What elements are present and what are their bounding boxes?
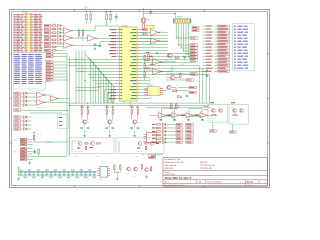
label IC designators — [31, 91, 36, 93]
diode D10 — [111, 162, 115, 172]
capacitor C18 — [93, 171, 97, 178]
wire — [208, 75, 210, 104]
resistor R33 — [176, 104, 181, 109]
net label LED4 — [186, 134, 193, 136]
net label OUT2 — [230, 131, 237, 133]
wire — [21, 116, 24, 118]
wire — [187, 24, 189, 58]
wire — [21, 109, 30, 112]
svg-text:10K: 10K — [175, 55, 177, 57]
wire — [140, 80, 150, 82]
wire — [97, 69, 99, 104]
wire — [92, 63, 94, 104]
wire bus entry — [85, 54, 91, 60]
resistor RN4 — [52, 36, 56, 37]
wire — [27, 104, 37, 106]
transistor Q11 — [170, 75, 178, 79]
op-amp U7D — [200, 111, 208, 121]
module box K1 — [208, 104, 228, 122]
svg-text:74HC14: 74HC14 — [74, 49, 79, 51]
wire — [68, 62, 116, 64]
label K2 12V — [231, 102, 235, 103]
wire bus entry — [106, 78, 112, 84]
resistor R26 — [152, 156, 156, 157]
wire — [162, 61, 176, 63]
junction — [81, 105, 82, 106]
net label AD5 — [203, 40, 230, 42]
wire — [106, 13, 108, 15]
net label AD6 — [203, 43, 230, 45]
wire — [140, 65, 200, 67]
wire — [144, 12, 176, 14]
label pin net — [111, 38, 116, 39]
svg-text:C2 104: C2 104 — [149, 97, 153, 99]
svg-text:R30 1K: R30 1K — [165, 60, 169, 62]
wire — [53, 64, 67, 66]
svg-text:Fixed 1 T.A. Print 27.1.0.-7: Fixed 1 T.A. Print 27.1.0.-7 — [165, 184, 185, 187]
svg-text:D10: D10 — [111, 162, 113, 164]
power VCC — [174, 13, 176, 16]
svg-text:U7D: U7D — [200, 111, 202, 113]
svg-text:9013: 9013 — [112, 122, 115, 124]
svg-text:12M: 12M — [147, 20, 150, 22]
wire — [93, 80, 117, 82]
diode D3 — [24, 124, 27, 127]
wire — [144, 61, 146, 64]
svg-text:For what:(bit) - Tick: For what:(bit) - Tick — [165, 158, 181, 161]
svg-text:Bill ada anual: (91) 245: Bill ada anual: (91) 245 — [165, 162, 184, 164]
diode D8 — [162, 137, 165, 140]
net label PC3 — [190, 53, 197, 55]
capacitor C6 — [41, 171, 45, 178]
svg-text:4K7: 4K7 — [161, 31, 163, 33]
wire bus entry — [101, 72, 107, 78]
net label KY1 — [14, 116, 21, 118]
resistor R19 — [157, 134, 161, 135]
net label AD3 — [203, 34, 230, 36]
wire — [99, 42, 101, 46]
svg-text:HC04: HC04 — [201, 118, 204, 120]
resistor R21 — [34, 135, 40, 139]
svg-text:10uF: 10uF — [159, 53, 162, 55]
svg-text:+5V: +5V — [142, 154, 145, 156]
wire — [21, 128, 24, 130]
capacitor C4 — [32, 171, 36, 178]
op-amp U2A — [37, 89, 46, 98]
label pin net — [109, 50, 116, 51]
svg-text:TTi17 [25, B5]: TTi17 [25, B5] — [200, 168, 212, 170]
svg-text:A4: A4 — [199, 181, 201, 184]
svg-text:9013 9013: 9013 9013 — [231, 118, 236, 120]
wire — [76, 71, 117, 73]
module box M1 — [58, 115, 69, 129]
net label AFD — [44, 28, 51, 30]
svg-text:U7B: U7B — [172, 111, 174, 113]
label stack — [146, 60, 149, 61]
resistor R14 — [173, 90, 177, 91]
label pin net — [109, 98, 116, 99]
svg-text:R3 R4: R3 R4 — [105, 12, 109, 14]
capacitor — [173, 118, 176, 121]
capacitor C5 — [37, 170, 41, 176]
wire — [204, 106, 209, 108]
wire — [53, 76, 67, 78]
net label OUT1 — [210, 130, 217, 132]
IC U1 AT89C52 — [116, 25, 140, 101]
junction — [106, 105, 107, 106]
resistor R25 — [150, 167, 154, 171]
resistor R12 — [144, 64, 146, 69]
wire — [155, 141, 158, 143]
wire bus — [70, 105, 210, 107]
svg-text:SCL: SCL — [157, 92, 160, 94]
label pin net — [110, 89, 116, 90]
junction — [112, 103, 113, 104]
wire — [90, 60, 92, 104]
wire — [167, 114, 172, 116]
ground — [206, 74, 209, 77]
svg-text:BTG, P52:: BTG, P52: — [165, 168, 174, 170]
wire — [76, 68, 117, 70]
wire — [33, 140, 35, 142]
wire — [166, 77, 170, 79]
diode D1 — [24, 116, 27, 119]
svg-text:1K: 1K — [152, 169, 154, 171]
label pin net — [112, 56, 117, 57]
resistor R29 — [177, 94, 182, 97]
diode DD1 — [58, 24, 61, 27]
resistor R21 — [157, 142, 161, 143]
wire — [108, 81, 110, 104]
transistor Q5 — [232, 107, 236, 112]
wire — [160, 40, 168, 42]
wire — [165, 123, 175, 125]
net label AN1 — [190, 73, 197, 75]
resistor R10 — [143, 33, 147, 34]
capacitor C22 — [33, 150, 36, 155]
wire — [140, 29, 146, 31]
transistor Q1 — [167, 53, 175, 58]
label pin net — [108, 44, 116, 45]
wire — [155, 138, 158, 140]
wire — [143, 29, 145, 31]
power VCC — [86, 11, 88, 14]
net label AD2 — [203, 31, 230, 33]
resistor R20 — [157, 138, 161, 139]
wire — [181, 47, 190, 49]
svg-text:VC: VC — [158, 88, 160, 90]
net label LED4A — [176, 134, 182, 136]
label stack — [150, 64, 153, 65]
svg-text:9013: 9013 — [137, 122, 140, 124]
capacitor C9 — [54, 170, 58, 176]
label K1 12V — [210, 102, 214, 103]
net label +5V — [142, 154, 164, 158]
capacitor C14 — [76, 171, 80, 178]
diode DD4 — [58, 35, 61, 38]
wire — [140, 47, 168, 49]
wire vertical bus — [66, 54, 68, 156]
wire — [140, 98, 150, 100]
resistor RN2 — [52, 28, 56, 29]
net label PC5 — [46, 76, 53, 78]
wire — [204, 109, 209, 111]
svg-text:9013: 9013 — [87, 122, 90, 124]
wire — [90, 77, 116, 79]
wire — [76, 90, 99, 92]
wire — [27, 92, 37, 94]
svg-text:U4B: U4B — [150, 45, 153, 47]
wire — [140, 41, 168, 43]
label pin net — [111, 95, 117, 96]
net label ACK — [44, 39, 51, 41]
wire — [27, 96, 37, 98]
wire — [188, 56, 189, 58]
svg-text:OUT2: OUT2 — [96, 156, 100, 158]
svg-text:HC04: HC04 — [159, 118, 162, 120]
capacitor C10 — [58, 171, 62, 178]
wire — [21, 120, 24, 122]
net label LED6A — [176, 141, 182, 143]
net label LED2A — [176, 127, 182, 129]
svg-text:GN: GN — [148, 94, 150, 96]
net label AD4 — [203, 37, 230, 39]
wire — [61, 25, 64, 27]
net label IR7 — [203, 64, 230, 66]
wire — [140, 74, 209, 76]
wire loop — [162, 109, 175, 117]
ground — [17, 177, 20, 180]
resistor R8b — [110, 14, 112, 20]
svg-text:JRC-21F: JRC-21F — [210, 120, 215, 122]
wire — [114, 171, 120, 173]
capacitor C13 — [98, 44, 102, 47]
label stack — [146, 68, 149, 69]
wire — [140, 32, 151, 34]
resistor R28 — [180, 74, 182, 79]
wire vertical — [78, 51, 80, 104]
net label AD1 — [203, 28, 230, 30]
net label PC0 — [46, 61, 53, 63]
module box RLY1 — [69, 138, 114, 154]
label pin net — [110, 29, 117, 30]
svg-text:9013 9013: 9013 9013 — [210, 118, 215, 120]
wire — [180, 114, 185, 116]
driver group T1 — [78, 106, 91, 134]
resistor R — [195, 115, 198, 116]
svg-text:m 1/1: m 1/1 — [248, 185, 252, 187]
net label RST — [14, 104, 21, 106]
capacitor C8 — [50, 171, 54, 178]
svg-text:Thim TOC bo: En=7: Thim TOC bo: En=7 — [165, 176, 192, 180]
net label PC2 — [46, 67, 53, 69]
svg-text:WP: WP — [158, 90, 160, 92]
wire — [86, 20, 88, 23]
junction — [90, 59, 91, 60]
svg-text:U7C: U7C — [186, 111, 188, 113]
wire — [53, 70, 67, 72]
svg-text:C14 104: C14 104 — [180, 64, 185, 66]
wire — [166, 73, 190, 75]
label pin net — [108, 92, 116, 93]
wire — [59, 98, 70, 100]
net label PC0H — [192, 26, 199, 28]
net label AN2 — [186, 79, 193, 81]
diode DIIRQ — [24, 100, 27, 103]
power VCC — [33, 132, 35, 135]
svg-text:LM358: LM358 — [99, 179, 103, 181]
wire — [61, 32, 64, 34]
wire — [51, 28, 53, 30]
svg-text:Sie #:: Sie #: — [165, 182, 170, 184]
diode D11 — [118, 164, 121, 173]
driver group T2 — [103, 106, 116, 134]
svg-text:swhe: d/ba ad:: swhe: d/ba ad: — [165, 165, 177, 167]
ground — [28, 161, 31, 164]
resistor R17 — [157, 127, 161, 128]
wire — [140, 92, 150, 94]
diode D6 — [162, 130, 165, 133]
net label SCL — [189, 91, 196, 93]
resistor RN5 — [52, 39, 56, 40]
net label PC6 — [190, 44, 197, 46]
label row — [152, 131, 155, 132]
wire — [140, 44, 168, 46]
wire — [72, 30, 95, 32]
net label PC1H — [192, 29, 199, 31]
connector J3 — [14, 138, 32, 145]
wire — [72, 37, 87, 39]
wire vertical — [75, 51, 77, 104]
junction — [108, 80, 109, 81]
wire — [109, 96, 111, 104]
net label PE — [44, 46, 51, 48]
wire — [140, 86, 150, 88]
resistor R6a — [78, 31, 79, 36]
op-amp U7C — [186, 111, 194, 121]
title block — [163, 157, 268, 187]
wire — [140, 32, 146, 34]
wire — [100, 72, 102, 104]
wire — [56, 46, 64, 48]
junction — [175, 37, 178, 40]
capacitor C8 — [115, 14, 118, 21]
wire — [140, 68, 203, 70]
net label KY4 — [14, 128, 21, 130]
wire — [94, 26, 96, 31]
net label SLIN — [44, 35, 51, 37]
label pin net — [110, 41, 116, 42]
junction — [69, 105, 70, 106]
wire — [123, 101, 125, 103]
net label IOR — [203, 49, 230, 51]
op-amp U4A — [150, 26, 160, 35]
wire — [103, 75, 105, 104]
wire — [98, 86, 117, 88]
wire bus entry — [98, 69, 104, 75]
resistor RN8 — [52, 50, 56, 51]
wire — [140, 56, 196, 58]
net label LED1A — [176, 123, 182, 125]
wire — [27, 128, 32, 130]
wire — [105, 89, 117, 91]
wire — [194, 114, 199, 116]
diode DD6 — [58, 42, 61, 45]
diode DD2 — [58, 28, 61, 31]
resistor R16 — [157, 124, 161, 125]
net label LED3A — [176, 130, 182, 132]
wire — [53, 67, 67, 69]
wire — [208, 114, 212, 116]
op-amp U6B — [152, 68, 162, 78]
wire — [110, 84, 112, 104]
power VCC — [18, 167, 20, 170]
net label PC4 — [190, 50, 197, 52]
diode DIRST — [24, 104, 27, 107]
wire — [129, 101, 131, 106]
net label PC7 — [190, 37, 197, 39]
wire — [150, 114, 158, 116]
wire — [165, 138, 175, 140]
wire — [61, 42, 64, 44]
junction — [98, 68, 99, 69]
wire loop — [189, 109, 202, 117]
IC U8 — [97, 167, 110, 182]
wire — [155, 123, 158, 125]
wire — [166, 79, 186, 81]
svg-text:Date: 27/5.185.47: Date: 27/5.185.47 — [208, 181, 222, 184]
wire — [30, 110, 70, 112]
label row — [152, 124, 155, 125]
wire — [51, 32, 53, 34]
capacitor C9 — [149, 9, 152, 15]
svg-text:C6 104: C6 104 — [38, 134, 42, 136]
net label RD0 — [46, 52, 53, 54]
resistor RN1 — [52, 25, 56, 26]
power VCC — [90, 11, 92, 14]
wire — [155, 134, 158, 136]
net label PC1 — [190, 59, 197, 61]
junction — [180, 47, 183, 50]
resistor RN7 — [52, 46, 56, 47]
wire vertical — [84, 51, 86, 104]
capacitor C15 — [80, 170, 84, 176]
wire — [140, 83, 150, 85]
net table NT2 — [233, 24, 255, 71]
junction — [185, 53, 188, 56]
capacitor C3 — [28, 170, 32, 176]
wire — [160, 32, 168, 34]
wire — [51, 39, 53, 41]
wire — [68, 59, 116, 61]
svg-text:TTi17 [V7, B), LV]: TTi17 [V7, B), LV] — [200, 165, 215, 167]
svg-text:Mor.lad: Mor.lad — [247, 182, 253, 184]
svg-text:TXD: TXD — [142, 43, 144, 45]
svg-text:10uF: 10uF — [38, 147, 41, 149]
junction — [93, 62, 94, 63]
resistor R8a — [106, 14, 108, 20]
junction — [182, 50, 185, 53]
op-amp U6A — [152, 56, 162, 66]
connector J4 — [14, 148, 32, 161]
net label LED5 — [186, 138, 193, 140]
wire — [106, 93, 108, 104]
capacitor C12 — [186, 95, 189, 96]
label pin net — [110, 53, 117, 54]
resistor R23 — [212, 115, 219, 117]
op-amp U4B — [150, 38, 160, 48]
wire — [51, 42, 53, 44]
